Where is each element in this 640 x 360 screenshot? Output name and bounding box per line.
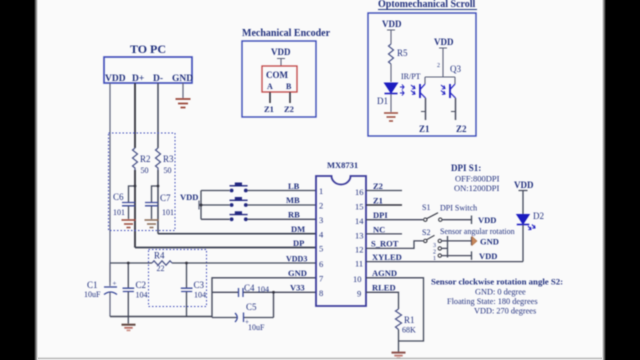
VDD tick (D2): [519, 191, 528, 215]
Mechanical Encoder box: [242, 41, 316, 117]
svg-text:104: 104: [257, 285, 269, 294]
svg-text:RLED: RLED: [372, 283, 396, 293]
svg-text:104: 104: [136, 291, 148, 300]
svg-text:OFF:800DPI: OFF:800DPI: [455, 174, 500, 184]
ground (main bus): [122, 325, 136, 331]
wire GND stub from TO PC: [182, 83, 184, 98]
svg-text:15: 15: [355, 202, 364, 212]
wire ground bus: [110, 316, 212, 318]
svg-text:VDD3: VDD3: [286, 255, 307, 264]
svg-text:R2: R2: [140, 154, 151, 164]
svg-text:C2: C2: [136, 280, 147, 290]
svg-text:C1: C1: [87, 280, 98, 290]
ground (TO PC): [176, 99, 191, 108]
svg-text:13: 13: [355, 230, 364, 240]
wire D2 to XYLED: [522, 225, 524, 262]
svg-text:C3: C3: [194, 280, 205, 290]
svg-text:RB: RB: [288, 210, 300, 220]
svg-text:2: 2: [319, 201, 323, 211]
svg-text:2: 2: [433, 250, 436, 256]
svg-text:AGND: AGND: [372, 268, 397, 278]
svg-text:Z1: Z1: [419, 124, 430, 134]
svg-text:IR/PT: IR/PT: [401, 72, 421, 81]
svg-text:1: 1: [319, 186, 323, 196]
svg-text:Q3: Q3: [450, 64, 461, 74]
wire VDD vertical from TO PC: [109, 83, 111, 282]
wire DP from D+ to chip: [135, 247, 316, 249]
svg-text:3: 3: [433, 243, 436, 249]
switch S2 rotary: [422, 228, 441, 262]
svg-text:MX8731: MX8731: [327, 160, 358, 170]
svg-text:101: 101: [113, 208, 125, 217]
svg-text:DPI S1:: DPI S1:: [451, 163, 481, 173]
wire VDD3 bus: [110, 262, 316, 264]
svg-text:D-: D-: [153, 74, 163, 84]
svg-text:LB: LB: [288, 181, 300, 191]
svg-text:14: 14: [355, 216, 364, 226]
svg-text:VDD: VDD: [382, 19, 402, 29]
svg-text:4: 4: [319, 229, 324, 239]
svg-text:VDD: VDD: [271, 47, 291, 57]
svg-text:Z2: Z2: [456, 124, 467, 134]
VDD terminal tick (buttons): [198, 201, 200, 210]
svg-text:DPI: DPI: [373, 210, 388, 220]
svg-text:Z1: Z1: [264, 104, 274, 114]
wire R5 to D1: [390, 64, 392, 82]
wire S2 to VDD terminal: [448, 251, 472, 260]
wire encoder A to Z1: [269, 92, 271, 103]
dashed box USB termination: [109, 133, 176, 231]
svg-text:D1: D1: [377, 96, 388, 106]
svg-text:Z2: Z2: [373, 181, 383, 191]
svg-text:7: 7: [319, 274, 323, 284]
wire AGND to ground: [366, 278, 424, 341]
svg-text:VDD: 270 degrees: VDD: 270 degrees: [474, 307, 536, 316]
phototransistor Q3b: [441, 84, 456, 98]
left black bar: [0, 0, 34, 360]
svg-text:VDD: VDD: [479, 251, 497, 261]
svg-text:NC: NC: [373, 225, 385, 235]
capacitor C4: [239, 283, 270, 297]
wire RLED to R1: [366, 292, 399, 309]
svg-text:S2: S2: [422, 228, 430, 237]
resistor R1: [396, 309, 402, 330]
svg-text:VDD: VDD: [180, 192, 198, 202]
encoder COM box: [262, 66, 297, 92]
svg-text:VDD: VDD: [478, 215, 496, 225]
resistor R3: [156, 148, 161, 170]
wire encoder B to Z2: [289, 92, 291, 103]
wire D- vertical from TO PC: [157, 83, 159, 234]
capacitor C5: [235, 302, 265, 332]
svg-text:ON:1200DPI: ON:1200DPI: [454, 183, 500, 193]
wire NC stub: [366, 233, 402, 235]
LED D2: [517, 211, 544, 230]
right black bar: [606, 0, 640, 360]
wire GND pin to ground bus: [212, 278, 316, 318]
ground (C7): [145, 220, 159, 228]
svg-text:C4: C4: [244, 283, 255, 293]
svg-text:50: 50: [164, 166, 172, 175]
svg-text:XYLED: XYLED: [372, 252, 402, 262]
phototransistor Q3a: [411, 84, 426, 98]
svg-text:Sensor clockwise rotation angl: Sensor clockwise rotation angle S2:: [431, 277, 563, 287]
wire S1 to VDD terminal: [442, 216, 472, 225]
svg-text:Mechanical Encoder: Mechanical Encoder: [242, 28, 331, 39]
wire MB to chip pin2: [248, 204, 316, 206]
LED D1: [377, 83, 404, 106]
svg-text:GND: 0 degree: GND: 0 degree: [475, 288, 526, 297]
svg-text:50: 50: [141, 166, 149, 175]
VDD terminal tick (mech encoder): [277, 59, 285, 67]
svg-text:Floating State: 180 degrees: Floating State: 180 degrees: [447, 297, 538, 306]
svg-text:9: 9: [357, 288, 361, 298]
dashed box R4: [149, 250, 207, 307]
capacitor C7: [145, 185, 174, 219]
svg-text:DPI Switch: DPI Switch: [440, 204, 477, 213]
svg-text:GND: GND: [172, 74, 193, 84]
resistor R4: [152, 261, 172, 265]
svg-text:D+: D+: [132, 74, 144, 84]
ground (C6): [122, 220, 136, 228]
video bottom edge line: [36, 357, 604, 359]
capacitor C3: [181, 262, 206, 317]
push button LB: [230, 183, 248, 193]
wire Q3b emitter to Z2: [455, 98, 457, 120]
svg-text:Sensor angular rotation: Sensor angular rotation: [440, 227, 515, 236]
svg-text:104: 104: [194, 291, 206, 300]
svg-text:5: 5: [319, 243, 323, 253]
wire DPI to S1: [366, 219, 423, 221]
wire S2 contacts to bar: [442, 236, 448, 258]
wire D+ vertical from TO PC: [134, 83, 136, 248]
Optomechanical Scroll box: [368, 13, 476, 136]
svg-text:Z2: Z2: [284, 104, 294, 114]
svg-text:+: +: [113, 280, 117, 288]
push button RB: [230, 211, 248, 221]
wire VDD to Q3 collectors: [425, 62, 455, 84]
svg-text:GND: GND: [288, 268, 307, 278]
svg-text:R3: R3: [163, 154, 174, 164]
svg-text:R1: R1: [404, 315, 415, 325]
selection arrow (S2 GND): [472, 237, 477, 246]
ground (R1): [392, 353, 406, 358]
capacitor C1: [84, 263, 117, 317]
svg-text:10uF: 10uF: [84, 290, 101, 299]
svg-text:R5: R5: [397, 48, 408, 58]
svg-text:V33: V33: [290, 283, 305, 293]
svg-text:MB: MB: [286, 195, 300, 205]
svg-text:S_ROT: S_ROT: [371, 239, 399, 249]
wire button common vertical: [199, 191, 230, 220]
svg-text:TO PC: TO PC: [130, 42, 166, 56]
svg-text:2: 2: [437, 63, 440, 69]
wire Z1 stub: [366, 204, 402, 206]
svg-text:10: 10: [353, 274, 362, 284]
wire R1 to ground: [398, 330, 400, 353]
svg-text:68K: 68K: [402, 326, 416, 335]
svg-text:C5: C5: [246, 302, 257, 312]
VDD tick (scroll left): [387, 30, 395, 36]
svg-text:Z1: Z1: [373, 196, 383, 206]
svg-text:DM: DM: [291, 224, 305, 234]
wire Q3a emitter to Z1: [425, 98, 427, 120]
svg-text:101: 101: [162, 208, 174, 217]
svg-text:R4: R4: [154, 251, 165, 261]
svg-text:S1: S1: [422, 203, 430, 212]
svg-text:DP: DP: [293, 238, 304, 248]
svg-text:22: 22: [157, 264, 165, 273]
wire VDD to R5: [390, 36, 392, 44]
wire RB to chip pin3: [248, 218, 316, 220]
resistor R5: [389, 44, 394, 64]
svg-text:16: 16: [355, 187, 364, 197]
VDD tick (scroll right): [439, 48, 447, 62]
svg-text:A: A: [267, 82, 273, 91]
svg-text:C6: C6: [113, 192, 124, 202]
svg-text:D2: D2: [533, 211, 544, 221]
wire DM from D- to chip: [158, 233, 316, 235]
svg-text:10uF: 10uF: [248, 323, 265, 332]
wire D1 to ground: [390, 94, 392, 112]
svg-text:C7: C7: [160, 193, 171, 203]
svg-text:Optomechanical Scroll: Optomechanical Scroll: [378, 0, 476, 10]
svg-text:3: 3: [319, 215, 323, 225]
resistor R2: [133, 148, 138, 170]
wire XYLED to D2: [366, 261, 523, 263]
switch S1: [422, 203, 442, 221]
svg-text:GND: GND: [480, 237, 499, 247]
svg-text:8: 8: [319, 288, 323, 298]
capacitor C2: [123, 262, 148, 324]
wire V33 pin: [212, 292, 316, 317]
wire S2 to GND terminal: [448, 237, 472, 246]
TO PC connector box: [104, 57, 192, 83]
svg-text:COM: COM: [266, 70, 289, 80]
svg-text:B: B: [286, 82, 292, 91]
wire S_ROT to S2: [366, 241, 423, 249]
svg-text:+: +: [245, 318, 249, 326]
capacitor C6: [113, 185, 136, 219]
svg-text:VDD: VDD: [434, 37, 454, 47]
svg-text:12: 12: [355, 244, 364, 254]
ground (scroll D1): [384, 113, 398, 121]
wire LB to chip pin1: [248, 190, 316, 192]
svg-text:6: 6: [319, 259, 323, 269]
svg-text:VDD: VDD: [105, 74, 126, 84]
svg-text:11: 11: [355, 259, 363, 269]
push button MB: [230, 197, 248, 207]
wire Z2 stub: [366, 190, 402, 192]
svg-text:VDD: VDD: [514, 180, 534, 190]
